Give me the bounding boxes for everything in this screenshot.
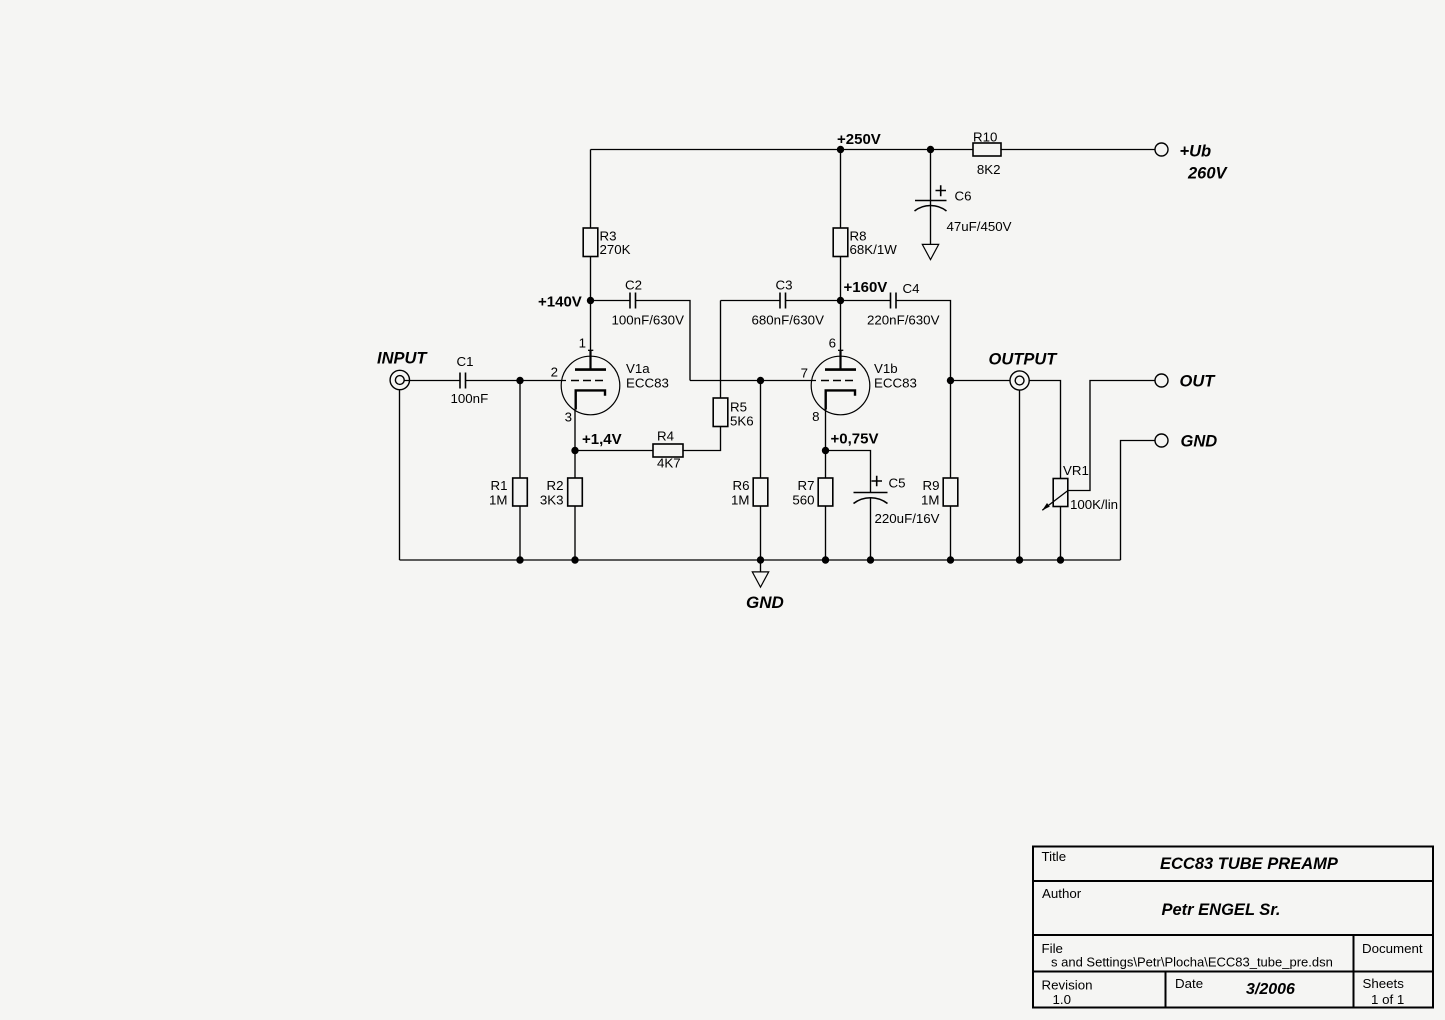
triode V1a xyxy=(561,350,620,415)
svg-text:220uF/16V: 220uF/16V xyxy=(875,511,940,526)
junction bus GND xyxy=(757,556,764,563)
V1b plate lead pin 6 xyxy=(839,351,841,369)
svg-text:8K2: 8K2 xyxy=(977,162,1001,177)
svg-text:1: 1 xyxy=(579,336,586,351)
resistor R9 xyxy=(943,478,958,506)
svg-text:5K6: 5K6 xyxy=(730,414,754,429)
svg-text:R6: R6 xyxy=(733,478,750,493)
svg-text:270K: 270K xyxy=(600,242,631,257)
svg-text:Date: Date xyxy=(1175,976,1203,991)
svg-text:+1,4V: +1,4V xyxy=(582,431,622,448)
V1a plate bar xyxy=(575,368,606,371)
junction node at C6 xyxy=(927,146,934,153)
wire VR1 wiper tap to OUT xyxy=(1068,381,1155,491)
svg-text:ECC83 TUBE PREAMP: ECC83 TUBE PREAMP xyxy=(1160,855,1339,873)
wire grid bus to V1b pin 7 xyxy=(690,380,816,382)
wire plate node to OUTPUT xyxy=(951,380,1011,382)
wire +140V node to C2 xyxy=(591,300,630,302)
wire C2 to corner xyxy=(636,301,690,381)
svg-text:7: 7 xyxy=(801,366,808,381)
svg-text:GND: GND xyxy=(1181,433,1218,451)
svg-text:1M: 1M xyxy=(731,493,749,508)
capacitor C1 plates xyxy=(460,373,466,389)
svg-text:C5: C5 xyxy=(889,476,906,491)
resistor R1 xyxy=(513,478,528,506)
svg-text:C1: C1 xyxy=(457,354,474,369)
wire V1b plate riser xyxy=(840,301,842,351)
junction node +140V xyxy=(587,297,594,304)
wire R1 riser xyxy=(519,381,521,479)
wire VR1 bottom xyxy=(1060,507,1062,561)
wire R1 bottom xyxy=(519,506,521,560)
ground symbol GND below bus xyxy=(752,572,768,587)
svg-text:4K7: 4K7 xyxy=(657,456,681,471)
junction node +1,4V xyxy=(571,447,578,454)
svg-text:R1: R1 xyxy=(491,478,508,493)
V1a plate lead pin 1 xyxy=(589,351,591,369)
svg-text:OUTPUT: OUTPUT xyxy=(989,351,1059,369)
wire R7 bottom xyxy=(825,506,827,560)
potentiometer VR1 body xyxy=(1053,479,1068,507)
junction node plate V1b / R9 xyxy=(947,377,954,384)
svg-text:+0,75V: +0,75V xyxy=(831,431,879,448)
junction node +250V at R8 xyxy=(837,146,844,153)
resistor R4 xyxy=(653,444,683,457)
svg-text:3/2006: 3/2006 xyxy=(1246,981,1295,998)
junction node grid V1b / R6 xyxy=(757,377,764,384)
svg-text:+Ub: +Ub xyxy=(1180,143,1212,161)
svg-text:100nF/630V: 100nF/630V xyxy=(612,313,685,328)
wire R5 riser from C3 wire xyxy=(720,301,722,399)
wire C4 right to R9 branch xyxy=(897,301,951,479)
svg-text:8: 8 xyxy=(812,409,819,424)
capacitor C6 electrolytic xyxy=(915,185,947,211)
terminal OUT xyxy=(1155,374,1168,387)
wire ground bus xyxy=(400,559,1121,561)
terminal OUTPUT xyxy=(1010,371,1029,390)
wire C6 branch from rail xyxy=(930,150,932,245)
wire R2 top xyxy=(574,451,576,479)
svg-text:R5: R5 xyxy=(730,400,747,415)
svg-text:R10: R10 xyxy=(973,130,997,145)
wire R6 riser from grid node xyxy=(760,381,762,479)
wire OUTPUT drop to bus xyxy=(1019,390,1021,560)
resistor R10 xyxy=(973,143,1001,156)
svg-text:220nF/630V: 220nF/630V xyxy=(867,313,940,328)
potentiometer VR1 wiper arrow xyxy=(1042,491,1068,511)
wire R8 top xyxy=(840,150,842,229)
wire V1a cathode pin 3 to +1,4V node xyxy=(574,409,576,451)
capacitor C4 plates xyxy=(891,293,897,309)
TITLE BLOCK xyxy=(1033,847,1433,1008)
resistor R3 xyxy=(583,228,598,257)
svg-text:R9: R9 xyxy=(923,478,940,493)
wire C3 left xyxy=(721,300,780,302)
svg-text:R2: R2 xyxy=(547,478,564,493)
svg-text:Author: Author xyxy=(1042,886,1082,901)
svg-text:Revision: Revision xyxy=(1042,978,1093,993)
svg-text:+250V: +250V xyxy=(837,131,881,148)
wire +0,75V node to C5 xyxy=(826,451,871,493)
wire C1 to V1a grid pin 2 xyxy=(466,380,566,382)
svg-text:3: 3 xyxy=(565,410,572,425)
junction bus VR1 xyxy=(1057,556,1064,563)
junction bus R7 xyxy=(822,556,829,563)
svg-text:1.0: 1.0 xyxy=(1053,992,1072,1007)
resistor R8 xyxy=(833,228,848,257)
junction bus R9 xyxy=(947,556,954,563)
wire +250V rail left segment xyxy=(591,149,974,151)
svg-text:3K3: 3K3 xyxy=(540,493,564,508)
junction node +160V xyxy=(837,297,844,304)
wire +160V node to C4 xyxy=(841,300,891,302)
wire GND terminal to bus xyxy=(1121,441,1155,561)
V1b grid dashes xyxy=(821,380,853,382)
V1b plate bar xyxy=(825,368,856,371)
svg-text:Document: Document xyxy=(1362,941,1423,956)
svg-text:C2: C2 xyxy=(625,278,642,293)
wire C3 right to +160V node xyxy=(786,300,841,302)
wire +1,4V node to R4 xyxy=(575,450,653,452)
V1b cathode xyxy=(826,390,855,409)
junction bus C5 xyxy=(867,556,874,563)
V1a cathode xyxy=(576,390,605,409)
wire R7 top xyxy=(825,451,827,479)
resistor R5 xyxy=(713,398,728,427)
junction bus OUTPUT xyxy=(1016,556,1023,563)
svg-text:2: 2 xyxy=(551,365,558,380)
svg-text:s and Settings\Petr\Plocha\ECC: s and Settings\Petr\Plocha\ECC83_tube_pr… xyxy=(1051,955,1333,970)
svg-text:C4: C4 xyxy=(903,281,920,296)
svg-text:ECC83: ECC83 xyxy=(874,376,917,391)
svg-text:1M: 1M xyxy=(489,493,507,508)
terminal INPUT xyxy=(390,370,409,389)
resistor R7 xyxy=(818,478,833,506)
svg-text:INPUT: INPUT xyxy=(377,350,428,368)
terminal +Ub xyxy=(1155,143,1168,156)
svg-text:+140V: +140V xyxy=(538,294,582,311)
V1a grid dashes xyxy=(571,380,603,382)
wire R8 bottom to +160V node xyxy=(840,257,842,301)
svg-text:260V: 260V xyxy=(1187,165,1229,183)
capacitor C3 plates xyxy=(780,293,786,309)
svg-text:6: 6 xyxy=(829,336,836,351)
svg-text:R4: R4 xyxy=(657,429,674,444)
svg-text:68K/1W: 68K/1W xyxy=(850,242,898,257)
junction bus R1 xyxy=(516,556,523,563)
wire INPUT to C1 xyxy=(404,380,460,382)
svg-text:560: 560 xyxy=(792,493,814,508)
wire R4 to R5 corner xyxy=(683,427,721,451)
resistor R2 xyxy=(568,478,583,506)
svg-text:V1b: V1b xyxy=(874,361,898,376)
svg-text:680nF/630V: 680nF/630V xyxy=(752,313,825,328)
svg-text:1M: 1M xyxy=(921,493,939,508)
wire INPUT drop to bus xyxy=(399,390,401,560)
svg-text:1 of 1: 1 of 1 xyxy=(1371,992,1404,1007)
wire R3 top xyxy=(590,150,592,229)
wire +250V rail right segment to +Ub xyxy=(1001,149,1155,151)
terminal GND right xyxy=(1155,434,1168,447)
junction node +0,75V xyxy=(822,447,829,454)
wire R2 bottom xyxy=(574,506,576,560)
wire V1a plate riser xyxy=(590,301,592,351)
svg-text:C6: C6 xyxy=(955,189,972,204)
capacitor C2 plates xyxy=(630,293,636,309)
wire OUTPUT to VR1 top xyxy=(1029,381,1060,479)
wire R6 bottom xyxy=(760,506,762,560)
svg-text:VR1: VR1 xyxy=(1063,463,1089,478)
ground symbol under C6 xyxy=(922,244,938,259)
svg-text:ECC83: ECC83 xyxy=(626,376,669,391)
triode V1b xyxy=(811,350,870,415)
svg-text:Petr ENGEL Sr.: Petr ENGEL Sr. xyxy=(1162,901,1281,919)
svg-text:100nF: 100nF xyxy=(451,391,489,406)
resistor R6 xyxy=(753,478,768,506)
svg-text:GND: GND xyxy=(746,593,784,612)
capacitor C5 electrolytic xyxy=(854,476,888,504)
wire ground stub below bus xyxy=(760,560,762,572)
junction node C1 / R1 xyxy=(516,377,523,384)
svg-text:V1a: V1a xyxy=(626,361,650,376)
wire R3 bottom to +140V node xyxy=(590,257,592,301)
svg-text:Title: Title xyxy=(1042,849,1067,864)
junction bus R2 xyxy=(571,556,578,563)
svg-text:100K/lin: 100K/lin xyxy=(1070,497,1118,512)
svg-text:C3: C3 xyxy=(776,278,793,293)
svg-text:R7: R7 xyxy=(798,478,815,493)
wire R9 bottom xyxy=(950,506,952,560)
svg-text:+160V: +160V xyxy=(844,279,888,296)
wire C5 bottom to bus xyxy=(870,498,872,561)
wire V1b cathode pin 8 to +0,75V node xyxy=(825,409,827,451)
svg-text:Sheets: Sheets xyxy=(1363,976,1405,991)
svg-text:47uF/450V: 47uF/450V xyxy=(947,219,1012,234)
svg-text:OUT: OUT xyxy=(1180,373,1217,391)
